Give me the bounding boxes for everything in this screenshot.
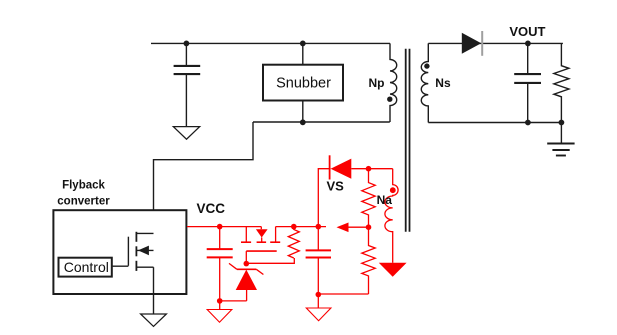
wire L to drain	[154, 122, 254, 233]
transistor Q1 channel	[135, 232, 137, 271]
svg-text:Snubber: Snubber	[276, 75, 331, 91]
resistor R2	[362, 227, 375, 294]
svg-text:Na: Na	[377, 193, 393, 207]
wire VCC rail left	[187, 226, 261, 228]
transistor pass FET left leg	[245, 227, 247, 242]
node Na phase dot	[390, 187, 396, 193]
flyback converter box	[53, 210, 186, 294]
transistor Q1 drain	[137, 232, 154, 234]
wire secondary top rail	[428, 42, 563, 44]
node snubber top	[300, 41, 306, 47]
wire snubber bottom drop	[302, 101, 304, 123]
capacitor output	[527, 43, 529, 74]
node VS	[366, 166, 372, 172]
transistor Q1 source	[137, 266, 154, 268]
inductor Na	[385, 169, 398, 263]
svg-text:converter: converter	[57, 196, 110, 208]
wire gate to R1 bottom	[246, 258, 294, 263]
capacitor VCC	[219, 227, 221, 250]
node R1 top	[291, 224, 297, 230]
node VOUT	[525, 41, 531, 47]
wire R2 bottom	[318, 293, 368, 295]
wire secondary bottom rail	[428, 122, 561, 124]
transistor pass FET right leg	[275, 227, 277, 242]
control box	[59, 258, 112, 277]
svg-text:VS: VS	[327, 179, 345, 194]
wire VS riser vertical	[318, 169, 330, 227]
node Ns phase dot	[424, 63, 429, 68]
wire top input rail	[151, 42, 390, 44]
wire snubber top drop	[302, 43, 304, 64]
diode zener	[237, 268, 256, 270]
node VCC cap bottom	[217, 298, 223, 304]
wire arrow segment	[348, 226, 368, 228]
transistor Q1 gate	[127, 237, 129, 266]
resistor R1	[288, 227, 299, 258]
ground output earth	[560, 123, 562, 144]
wire VS to Na	[351, 168, 392, 170]
snubber box	[263, 65, 343, 101]
ground input	[173, 127, 199, 140]
svg-text:Flyback: Flyback	[62, 180, 105, 192]
node VS riser	[316, 224, 322, 230]
ground VCC cap	[219, 301, 221, 310]
svg-text:Np: Np	[369, 76, 385, 90]
inductor Ns	[421, 43, 428, 122]
node VCC cap	[217, 224, 223, 230]
resistor output load	[554, 43, 569, 122]
transistor Q1 body arrow	[137, 249, 154, 251]
node snubber bottom	[300, 119, 306, 125]
resistor VS upper	[362, 169, 375, 228]
wire primary bottom rail	[253, 121, 390, 123]
svg-text:VCC: VCC	[197, 201, 226, 216]
ground converter	[141, 314, 167, 326]
wire VCC rail right	[276, 226, 326, 228]
diode VS	[329, 155, 331, 179]
transformer core	[406, 49, 410, 232]
svg-text:Control: Control	[64, 259, 109, 275]
node input-cap junction	[184, 41, 190, 47]
svg-text:VOUT: VOUT	[509, 24, 545, 39]
diode pass FET body	[260, 227, 262, 230]
wire input cap to ground	[185, 74, 187, 127]
wire input cap drop	[185, 43, 187, 66]
wire source to ground	[153, 267, 155, 314]
capacitor input bulk	[174, 66, 201, 74]
node output res bottom	[559, 120, 565, 126]
node gate zener	[244, 261, 250, 267]
svg-text:Ns: Ns	[435, 76, 451, 90]
node output cap bottom	[525, 120, 531, 126]
wire zener to cap node	[220, 300, 247, 302]
node Np phase dot	[387, 97, 392, 102]
inductor Np	[390, 43, 397, 122]
ground C2	[317, 295, 319, 309]
capacitor C2	[317, 227, 319, 251]
node R2 top	[366, 224, 372, 230]
ground Na filled	[379, 263, 407, 277]
transistor pass FET gate	[246, 250, 276, 252]
diode output rectifier	[462, 33, 481, 54]
node C2 bottom	[316, 292, 322, 298]
